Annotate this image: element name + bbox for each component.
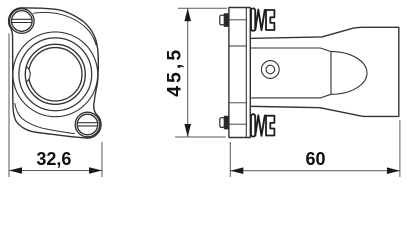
svg-text:32,6: 32,6 xyxy=(36,149,71,169)
svg-text:60: 60 xyxy=(305,149,325,169)
svg-text:45,5: 45,5 xyxy=(164,47,186,97)
